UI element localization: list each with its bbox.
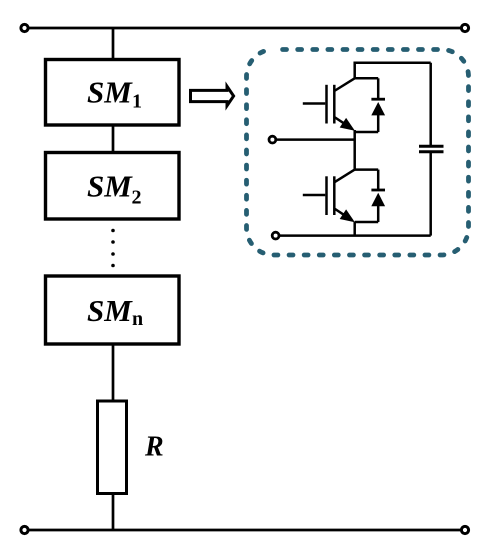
wire resistor to bottom bus bbox=[112, 493, 115, 530]
dashed submodule detail box bbox=[247, 50, 469, 256]
bottom output terminal bbox=[272, 232, 279, 239]
submodule SMn bbox=[46, 276, 180, 344]
diode D2 (lower antiparallel) bbox=[371, 170, 385, 222]
svg-text:SM: SM bbox=[87, 169, 133, 204]
wire: lower diode top branch bbox=[355, 168, 379, 171]
svg-text:SM: SM bbox=[87, 293, 133, 328]
submodule SM2 bbox=[46, 153, 180, 220]
bottom bus wire bbox=[24, 529, 465, 532]
IGBT Q2 body bar bbox=[333, 176, 336, 215]
capacitor C bottom lead bbox=[429, 153, 432, 236]
submodule SM1 bbox=[46, 60, 180, 126]
IGBT Q2 collector diagonal bbox=[334, 170, 354, 183]
resistor R body bbox=[98, 401, 127, 494]
IGBT Q1 body bar bbox=[333, 85, 336, 124]
IGBT Q1 emitter with arrow bbox=[334, 117, 355, 131]
top bus wire bbox=[24, 27, 465, 30]
IGBT Q1 gate bar bbox=[325, 85, 328, 124]
svg-text:1: 1 bbox=[132, 91, 142, 113]
wire: upper emitter junction branch bbox=[355, 131, 379, 134]
wire: lower emitter to bottom node bbox=[353, 222, 356, 236]
dotted continuation between SM2 and SMn bbox=[111, 229, 115, 268]
terminal top-left bbox=[21, 24, 28, 31]
IGBT Q2 gate bar bbox=[325, 176, 328, 215]
capacitor C plates bbox=[419, 146, 444, 152]
terminal top-right bbox=[461, 24, 468, 31]
mid output terminal bbox=[269, 136, 276, 143]
svg-text:2: 2 bbox=[132, 187, 142, 209]
label R bbox=[144, 432, 164, 463]
diode D1 (upper antiparallel) bbox=[371, 78, 385, 132]
wire: upper diode top branch bbox=[355, 77, 379, 80]
svg-text:R: R bbox=[144, 432, 164, 463]
block arrow from SM1 to detail bbox=[191, 86, 234, 105]
wire SMn to resistor bbox=[112, 344, 115, 402]
terminal bottom-right bbox=[461, 526, 468, 533]
capacitor C top lead bbox=[429, 63, 432, 146]
wire SM1 to SM2 bbox=[112, 125, 115, 153]
wire: top bus to SM1 bbox=[112, 28, 115, 62]
IGBT Q1 gate lead bbox=[303, 102, 326, 105]
IGBT Q2 emitter with arrow bbox=[334, 209, 355, 223]
wire: top rail inside box bbox=[355, 63, 431, 79]
wire: mid vertical (emitter Q1 to collector Q2) bbox=[353, 130, 356, 170]
terminal bottom-left bbox=[21, 526, 28, 533]
mid output node wire bbox=[276, 138, 355, 141]
bottom node wire bbox=[279, 234, 431, 237]
svg-text:SM: SM bbox=[87, 75, 133, 110]
wire: lower emitter junction branch bbox=[355, 221, 379, 224]
IGBT Q2 gate lead bbox=[303, 194, 326, 197]
svg-text:n: n bbox=[132, 308, 143, 330]
IGBT Q1 collector diagonal bbox=[334, 78, 354, 91]
